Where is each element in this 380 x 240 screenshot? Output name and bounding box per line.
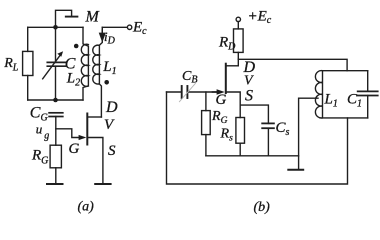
- resistor Rs: [236, 118, 245, 144]
- wire stub to chassis (a): [56, 10, 72, 27]
- transistor V fet (a): [79, 114, 103, 185]
- svg-text:V: V: [244, 74, 254, 89]
- svg-text:V: V: [104, 117, 115, 133]
- wire Cs branch top: [240, 105, 268, 123]
- inductor L2 primary coil: [81, 27, 88, 100]
- svg-text:RG: RG: [211, 109, 228, 126]
- wire Ec lead (a): [102, 26, 127, 28]
- ground under RG: [47, 183, 63, 185]
- wire gate branch (a): [56, 129, 84, 138]
- svg-text:Rs: Rs: [220, 127, 234, 144]
- wire Ec to RD: [237, 22, 239, 29]
- svg-text:(b): (b): [254, 200, 271, 215]
- node junction dot top (a): [53, 25, 58, 30]
- node Ec terminal (a): [127, 25, 131, 29]
- node polarity dot L1: [104, 80, 109, 85]
- svg-text:Ec: Ec: [132, 20, 147, 38]
- node polarity dot L2: [74, 44, 79, 49]
- svg-text:L1: L1: [102, 59, 116, 77]
- capacitor CB: [179, 83, 195, 101]
- resistor RG (a): [50, 145, 61, 168]
- svg-text:+Ec: +Ec: [248, 9, 272, 27]
- capacitor CG: [49, 113, 63, 117]
- svg-text:L1: L1: [324, 91, 338, 109]
- svg-text:(a): (a): [78, 200, 95, 215]
- wire C branch top: [55, 27, 57, 62]
- ground under source (a): [95, 183, 110, 185]
- wire top rail (a): [28, 26, 83, 28]
- wire tap to ground (b): [299, 98, 318, 169]
- resistor RD: [234, 29, 244, 53]
- resistor RL: [23, 51, 33, 75]
- wire C branch bottom: [55, 66, 57, 100]
- svg-text:G: G: [216, 92, 227, 108]
- wire C1 bottom lead: [367, 96, 369, 118]
- inductor L1 (b): [315, 71, 322, 118]
- wire Cs bottom: [267, 128, 269, 156]
- svg-text:RL: RL: [3, 56, 19, 74]
- wire RD to drain: [237, 52, 239, 65]
- wire tank top bar (b): [323, 70, 368, 72]
- wire bottom rail (a): [28, 99, 83, 101]
- svg-text:ug: ug: [36, 122, 50, 142]
- svg-text:C1: C1: [347, 91, 362, 109]
- ground chassis top (a): [66, 16, 78, 18]
- ground bar (b): [288, 169, 303, 171]
- inductor L1 secondary coil: [93, 27, 103, 117]
- wire C1 top lead: [367, 71, 369, 91]
- svg-text:S: S: [245, 88, 253, 105]
- wire gate line (b): [187, 91, 218, 93]
- capacitor Cs: [262, 123, 274, 128]
- wire RL top lead: [27, 27, 29, 51]
- svg-text:G: G: [69, 141, 80, 157]
- capacitor C variable: [43, 51, 66, 79]
- svg-text:S: S: [108, 143, 116, 159]
- wire RL bottom lead: [27, 76, 29, 101]
- wire tank bottom bar (b): [323, 117, 368, 119]
- wire lower rail (b): [206, 155, 299, 157]
- wire Rs bottom: [239, 143, 241, 156]
- svg-text:M: M: [85, 8, 101, 25]
- svg-text:Cs: Cs: [276, 120, 290, 138]
- wire drain node to tank (b): [238, 59, 347, 70]
- wire CG to RG: [55, 117, 57, 146]
- node Ec terminal (b): [236, 17, 240, 21]
- node junction dot bottom (a): [53, 98, 58, 103]
- svg-text:RG: RG: [31, 148, 48, 167]
- svg-text:L2: L2: [66, 71, 80, 89]
- wire RGb bottom: [205, 135, 207, 156]
- svg-text:iD: iD: [104, 29, 116, 47]
- arrow current iD (a): [100, 30, 105, 41]
- wire RGb branch: [205, 92, 207, 111]
- svg-text:CB: CB: [182, 69, 197, 86]
- wire RG to ground: [55, 168, 57, 184]
- wire CB input left: [167, 91, 182, 93]
- capacitor C1: [358, 91, 378, 95]
- wire left and bottom rail (b): [167, 92, 348, 184]
- resistor RG (b): [202, 111, 211, 135]
- svg-text:D: D: [105, 99, 118, 116]
- transistor V fet (b): [213, 64, 241, 118]
